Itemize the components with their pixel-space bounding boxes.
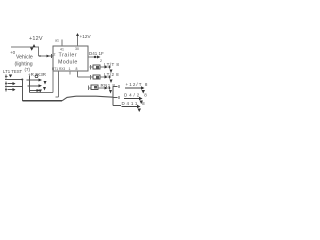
fuse F3 row D: [88, 83, 115, 94]
cluster right backbone: [29, 76, 31, 93]
connector cluster left label: [3, 69, 23, 74]
+12V supply arrow top right: [75, 33, 91, 51]
row F branch: [113, 82, 149, 94]
fuse F1 row B: [90, 62, 120, 73]
svg-text:+R 2K3R: +R 2K3R: [28, 72, 46, 77]
svg-text:41: 41: [60, 48, 64, 52]
svg-text:2: 2: [54, 53, 56, 57]
right distribution vertical: [112, 87, 114, 106]
connector arrow at pin 2: [47, 54, 52, 58]
svg-text:RT1: RT1: [52, 67, 58, 71]
wire +12V feed left: [11, 47, 39, 57]
connector arrow on wire D41: [97, 56, 101, 59]
bottom pin labels: [52, 67, 78, 71]
wire row C from pin 8: [78, 71, 94, 80]
wire to trailer module pin 2: [39, 55, 54, 57]
svg-text:+12/T 8: +12/T 8: [126, 82, 149, 87]
pin stub nc: [69, 71, 71, 75]
left bus wire 1: [5, 79, 23, 81]
junction on wire D41: [94, 56, 96, 58]
svg-text:1: 1: [69, 67, 71, 71]
trailer pin drop to W2: [56, 71, 59, 97]
cluster right row 2: [28, 84, 47, 90]
svg-text:LT1 TEST: LT1 TEST: [3, 69, 23, 74]
junction on pin 2 wire: [39, 55, 41, 57]
svg-text:D41 1F: D41 1F: [89, 51, 104, 56]
svg-text:a1: a1: [55, 39, 59, 43]
cluster left row 3: [5, 88, 16, 92]
vehicle module text: [15, 55, 33, 73]
ground bus W2 left drop: [23, 80, 63, 102]
svg-text:+0: +0: [10, 50, 16, 55]
svg-text:+12V: +12V: [29, 36, 43, 42]
trailer module U1 text: [58, 52, 78, 65]
left bus wire 2: [5, 85, 22, 87]
row G branch: [113, 93, 149, 105]
fuse F2 row C: [93, 72, 119, 83]
cluster right row 3: [30, 89, 43, 93]
svg-text:Vehicle: Vehicle: [16, 55, 33, 61]
wire D41 from right pin: [88, 56, 99, 58]
cluster left row 1: [5, 75, 12, 79]
svg-text:+12V: +12V: [80, 34, 92, 39]
svg-text:Trailer: Trailer: [59, 52, 78, 58]
svg-text:LT/2 8: LT/2 8: [104, 72, 119, 77]
connector cluster right label: [28, 72, 46, 77]
terminal circle: [35, 75, 38, 78]
cluster right row 1: [27, 79, 47, 85]
svg-text:8: 8: [76, 67, 78, 71]
pin 2 label left: [54, 53, 56, 57]
net label D41 1F: [89, 51, 104, 56]
svg-text:30: 30: [75, 47, 79, 51]
row H branch: [113, 101, 146, 112]
label +12V (left): [29, 36, 43, 42]
svg-text:RX3: RX3: [59, 67, 65, 71]
svg-text:D411 8: D411 8: [122, 101, 147, 106]
svg-text:Module: Module: [58, 59, 78, 65]
terminal T1 label: [10, 50, 16, 55]
pin number 2 (connector): [100, 59, 102, 63]
ground bus W2 long run: [62, 96, 113, 101]
trailer module U1 box: [53, 46, 88, 71]
cluster left row 2: [5, 82, 16, 86]
svg-text:2: 2: [100, 59, 102, 63]
svg-text:LT/T 8: LT/T 8: [104, 62, 119, 67]
connector arrow pair on +12V wire: [30, 44, 36, 51]
ground wire W1: [30, 71, 54, 93]
svg-text:D4/2 8: D4/2 8: [124, 93, 149, 98]
pin 41 stub top: [55, 39, 64, 52]
